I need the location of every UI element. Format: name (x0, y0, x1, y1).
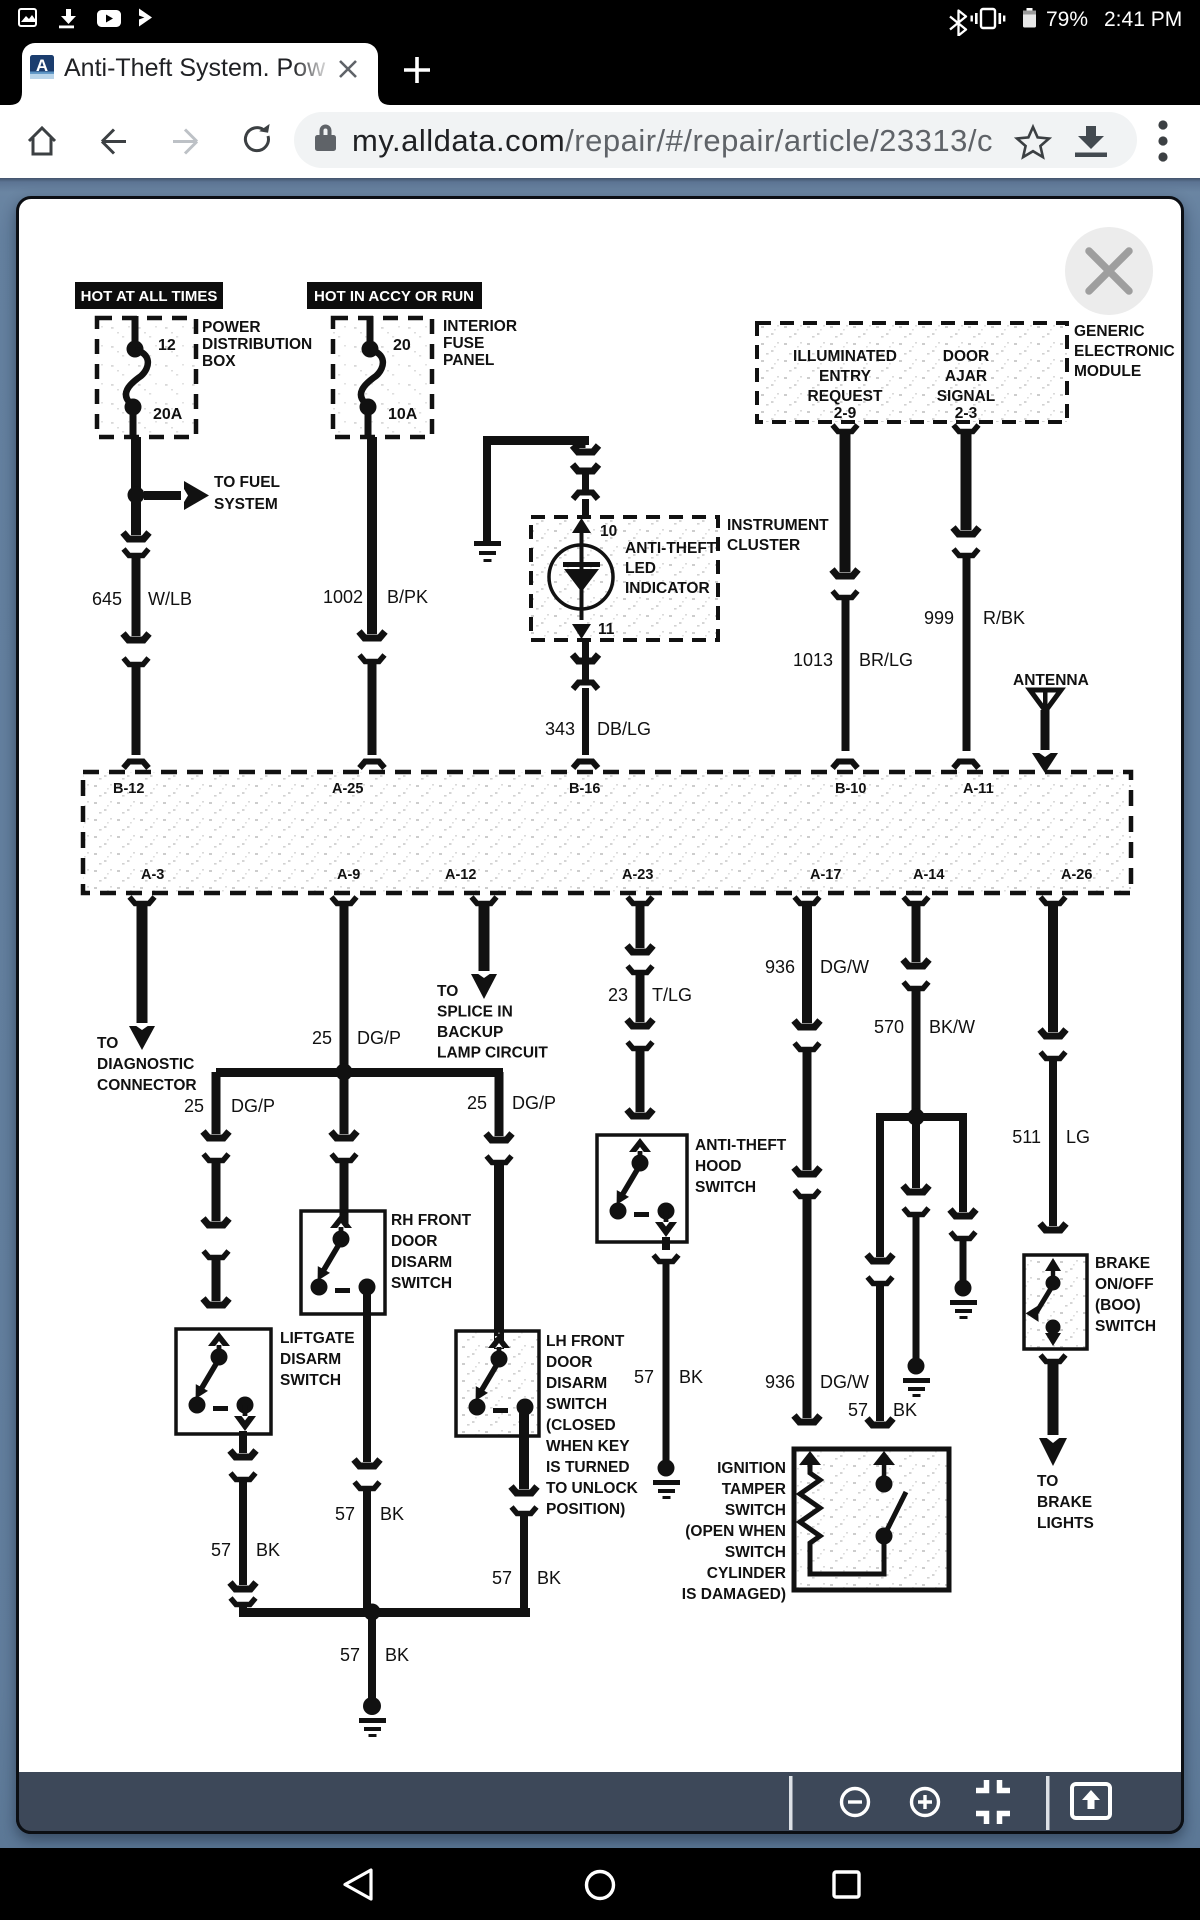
ground G2 (359, 1697, 386, 1737)
pin 10 arrow (572, 518, 591, 544)
wire A-17 segment 2 (794, 1043, 820, 1176)
LH switch contacts (469, 1334, 534, 1416)
svg-text:57: 57 (634, 1367, 654, 1387)
wire 999 R/BK lower segment (954, 549, 979, 768)
inline connector on 343 wire (573, 655, 599, 690)
svg-text:12: 12 (158, 337, 176, 354)
svg-text:A-9: A-9 (337, 867, 360, 883)
url bar (0, 105, 1200, 178)
RH switch contacts (311, 1214, 376, 1296)
new tab plus (402, 55, 432, 85)
svg-text:25: 25 (312, 1028, 332, 1048)
generic electronic module box (dashed) (757, 323, 1067, 422)
junction node to fuel system (128, 487, 145, 504)
svg-text:A-12: A-12 (445, 867, 476, 883)
svg-text:57: 57 (211, 1540, 231, 1560)
svg-text:936: 936 (765, 1372, 795, 1392)
toolbar divider right (1046, 1776, 1050, 1830)
bluetooth icon (950, 11, 966, 36)
tab bottom-right flare (378, 92, 390, 105)
svg-text:25: 25 (184, 1096, 204, 1116)
notification: youtube icon (97, 10, 121, 27)
splice junction S2 ground (364, 1604, 381, 1621)
wire 57 BK below RH switch (354, 1289, 380, 1468)
splice junction S3 (908, 1109, 925, 1126)
RH front door disarm switch box (301, 1211, 385, 1314)
active tab (22, 43, 378, 105)
inline connector on B-16 wire (573, 465, 599, 500)
ignition tamper switch box (794, 1449, 949, 1590)
svg-text:A-23: A-23 (622, 867, 653, 883)
toolbar divider left (789, 1776, 793, 1830)
right branch to ground G5 (950, 1113, 976, 1282)
wire 1002 B/PK segment 2 (360, 655, 385, 768)
svg-text:INSTRUMENTCLUSTER: INSTRUMENTCLUSTER (727, 517, 829, 554)
center branch to RH switch (331, 1077, 357, 1227)
label HOT IN ACCY OR RUN (307, 282, 482, 309)
ground G1 (474, 541, 501, 562)
wire 57 BK LH segment 2 (512, 1507, 537, 1612)
svg-text:343: 343 (545, 719, 575, 739)
liftgate wire corner to ground bus (231, 1598, 256, 1617)
reload icon (245, 122, 269, 150)
wire 645 W/LB segment 2 (123, 502, 149, 541)
anti-theft hood switch box (597, 1135, 687, 1242)
svg-text:1002: 1002 (323, 587, 363, 607)
svg-text:20A: 20A (153, 406, 183, 423)
liftgate disarm switch box (176, 1329, 271, 1434)
forward arrow (disabled) (173, 130, 197, 154)
nav home circle (587, 1872, 614, 1899)
battery icon (1023, 8, 1036, 28)
svg-text:A-17: A-17 (810, 867, 841, 883)
wire B-16 upper segment (573, 440, 599, 454)
tamper switch resistor leg (799, 1451, 821, 1550)
svg-text:DG/P: DG/P (357, 1028, 401, 1048)
notification: download icon (59, 9, 76, 28)
svg-text:ANTENNA: ANTENNA (1013, 672, 1089, 689)
svg-text:1013: 1013 (793, 650, 833, 670)
svg-text:LIFTGATEDISARMSWITCH: LIFTGATEDISARMSWITCH (280, 1330, 355, 1389)
svg-text:936: 936 (765, 957, 795, 977)
zoom out icon (842, 1789, 869, 1816)
notification: photo icon (19, 9, 37, 26)
brake on/off switch box (1024, 1255, 1087, 1349)
svg-text:A-11: A-11 (963, 781, 994, 797)
close button (1065, 227, 1153, 315)
label HOT AT ALL TIMES (75, 282, 223, 309)
wire 999 R/BK thick segment (953, 425, 979, 536)
tamper switch blade leg (810, 1451, 906, 1574)
svg-text:TOSPLICE INBACKUPLAMP CIRCUIT: TOSPLICE INBACKUPLAMP CIRCUIT (437, 983, 548, 1062)
svg-text:BK: BK (380, 1504, 404, 1524)
BOO switch contacts (1026, 1258, 1061, 1346)
svg-text:645: 645 (92, 589, 122, 609)
left branch to tamper switch (867, 1113, 893, 1263)
wire A-3 to diagnostic connector (129, 897, 155, 1050)
left branch 25 DG/P wire (203, 1072, 229, 1140)
liftgate switch contacts (189, 1332, 257, 1431)
svg-text:W/LB: W/LB (148, 589, 192, 609)
wire A-9 25 DG/P upper segment (332, 897, 357, 1068)
svg-text:25: 25 (467, 1093, 487, 1113)
svg-text:R/BK: R/BK (983, 608, 1025, 628)
svg-text:B/PK: B/PK (387, 587, 428, 607)
right branch 25 DG/P wire (486, 1072, 512, 1142)
svg-text:INTERIORFUSEPANEL: INTERIORFUSEPANEL (443, 318, 517, 369)
svg-text:A-14: A-14 (913, 867, 944, 883)
ground G1 wire loop (483, 436, 589, 541)
left branch segment 2 (203, 1154, 229, 1227)
svg-text:A-3: A-3 (141, 867, 164, 883)
wire 57 BK liftgate segment 2 (230, 1473, 256, 1591)
center branch to ground G4 (903, 1121, 929, 1360)
favicon alldata logo (30, 55, 54, 79)
wire A-17 segment 3 (794, 1190, 820, 1424)
nav back triangle (345, 1870, 371, 1899)
zoom in icon (912, 1789, 939, 1816)
open in new icon (1072, 1784, 1110, 1818)
svg-text:B-12: B-12 (113, 781, 144, 797)
svg-text:BRAKEON/OFF(BOO)SWITCH: BRAKEON/OFF(BOO)SWITCH (1095, 1255, 1156, 1335)
interior fuse panel box (dashed) (333, 318, 432, 437)
svg-text:10: 10 (600, 523, 617, 540)
svg-text:LH FRONTDOORDISARMSWITCH(CLOSE: LH FRONTDOORDISARMSWITCH(CLOSEDWHEN KEYI… (546, 1333, 639, 1518)
wire A-17 936 DG/W segment 1 (794, 897, 820, 1029)
svg-text:BK: BK (679, 1367, 703, 1387)
splice horizontal bus (216, 1068, 503, 1077)
fuse F2 10A (360, 316, 383, 437)
svg-text:GENERICELECTRONICMODULE: GENERICELECTRONICMODULE (1074, 323, 1175, 380)
svg-text:IGNITIONTAMPERSWITCH(OPEN WHEN: IGNITIONTAMPERSWITCH(OPEN WHENSWITCHCYLI… (682, 1460, 786, 1603)
wire A-26 511 LG segment 1 (1040, 897, 1066, 1038)
wire 645 W/LB segment 3 (123, 549, 149, 642)
wire A-23 segment 2 (627, 966, 653, 1028)
svg-text:TOBRAKELIGHTS: TOBRAKELIGHTS (1037, 1473, 1094, 1532)
svg-text:BK/W: BK/W (929, 1017, 975, 1037)
pin 11 arrow (572, 624, 591, 639)
tab close x (336, 57, 360, 81)
svg-text:570: 570 (874, 1017, 904, 1037)
svg-text:57: 57 (335, 1504, 355, 1524)
home icon (29, 128, 55, 154)
connector strip C2xx (dashed) (83, 772, 1131, 893)
fit screen icon (976, 1780, 1010, 1824)
wire A-14 570 BK/W segment 1 (903, 897, 929, 968)
wire A-26 segment 2 (1040, 1052, 1066, 1232)
svg-text:B-16: B-16 (569, 781, 600, 797)
wire 57 BK to ground G2 (368, 1617, 376, 1702)
wire 343 DB/LG lower segment (573, 688, 598, 768)
back arrow (102, 130, 126, 154)
LH front door disarm switch box (456, 1331, 539, 1436)
right branch segment 2 into LH switch (487, 1156, 512, 1349)
3-dot menu (1158, 120, 1167, 161)
svg-text:POWERDISTRIBUTIONBOX: POWERDISTRIBUTIONBOX (202, 319, 312, 370)
svg-text:23: 23 (608, 985, 628, 1005)
svg-text:11: 11 (598, 621, 615, 638)
left branch segment 3 (203, 1251, 229, 1307)
fuse F1 20A (125, 316, 148, 437)
svg-text:DG/P: DG/P (231, 1096, 275, 1116)
svg-text:B-10: B-10 (835, 781, 866, 797)
svg-text:57: 57 (340, 1645, 360, 1665)
svg-text:T/LG: T/LG (652, 985, 692, 1005)
wire into instrument cluster (582, 499, 589, 519)
svg-text:BK: BK (385, 1645, 409, 1665)
browser tab bar (0, 36, 1200, 105)
splice S3 horizontal bus (876, 1113, 967, 1121)
android status bar (0, 0, 1200, 36)
power distribution box (dashed) (97, 318, 196, 437)
svg-text:LG: LG (1066, 1127, 1090, 1147)
ground G5 (950, 1280, 977, 1320)
wire 1013 BR/LG lower segment (833, 591, 858, 768)
arrow TO FUEL SYSTEM (144, 481, 209, 510)
splice junction S1 (336, 1064, 353, 1081)
wire 57 BK below liftgate switch (230, 1431, 256, 1459)
svg-text:20: 20 (393, 337, 411, 354)
wire A-23 segment 3 (627, 1042, 653, 1118)
wire 57 BK below LH switch (511, 1409, 537, 1495)
left branch segment 2 (867, 1277, 893, 1427)
svg-text:TO FUELSYSTEM: TO FUELSYSTEM (214, 474, 280, 513)
svg-text:TODIAGNOSTICCONNECTOR: TODIAGNOSTICCONNECTOR (97, 1035, 197, 1094)
wire A-23 23 T/LG segment 1 (627, 897, 653, 954)
svg-text:A-25: A-25 (332, 781, 363, 797)
anti-theft LED indicator (549, 540, 613, 620)
wire 1013 BR/LG thick segment (832, 425, 858, 578)
hood switch contacts (610, 1138, 678, 1237)
tab bottom-left flare (10, 92, 22, 105)
lock icon (315, 125, 336, 152)
svg-text:A-26: A-26 (1061, 867, 1092, 883)
notification: play store icon (138, 9, 152, 27)
svg-text:HOT IN ACCY OR RUN: HOT IN ACCY OR RUN (314, 288, 474, 305)
svg-text:999: 999 (924, 608, 954, 628)
antenna symbol (1030, 689, 1061, 773)
svg-text:ANTI-THEFTHOODSWITCH: ANTI-THEFTHOODSWITCH (695, 1137, 787, 1196)
svg-text:511: 511 (1012, 1127, 1041, 1147)
svg-text:DB/LG: DB/LG (597, 719, 651, 739)
android nav bar (0, 1848, 1200, 1920)
wire 57 BK segment to splice (355, 1482, 380, 1612)
wire 1002 B/PK segment 1 (359, 437, 385, 640)
ground G3 (653, 1460, 680, 1500)
download page icon (1075, 126, 1107, 157)
svg-text:BK: BK (256, 1540, 280, 1560)
svg-text:BR/LG: BR/LG (859, 650, 913, 670)
wire 57 BK below hood switch (654, 1237, 679, 1462)
svg-text:DG/W: DG/W (820, 1372, 869, 1392)
wire 645 W/LB segment 1 (131, 437, 141, 488)
wire to brake lights (1039, 1355, 1067, 1466)
svg-text:57: 57 (492, 1568, 512, 1588)
svg-text:10A: 10A (388, 406, 418, 423)
bookmark star icon (1017, 127, 1049, 157)
nav recents square (834, 1872, 859, 1897)
wire A-14 segment 2 (904, 982, 929, 1113)
svg-text:BK: BK (537, 1568, 561, 1588)
svg-text:BK: BK (893, 1400, 917, 1420)
wire A-12 to backup lamp segment (471, 897, 497, 999)
ground bus horizontal (239, 1608, 530, 1617)
svg-text:RH FRONTDOORDISARMSWITCH: RH FRONTDOORDISARMSWITCH (391, 1212, 472, 1292)
svg-text:DG/P: DG/P (512, 1093, 556, 1113)
wire 343 DB/LG stub below cluster (582, 640, 589, 658)
svg-text:DG/W: DG/W (820, 957, 869, 977)
footer toolbar (16, 1772, 1184, 1834)
instrument cluster box (dashed) (531, 517, 718, 640)
svg-text:HOT AT ALL TIMES: HOT AT ALL TIMES (81, 288, 218, 305)
vibrate icon (971, 9, 1006, 28)
svg-text:57: 57 (848, 1400, 868, 1420)
ground G4 (903, 1358, 930, 1398)
wire 645 W/LB segment 4 (124, 658, 149, 768)
